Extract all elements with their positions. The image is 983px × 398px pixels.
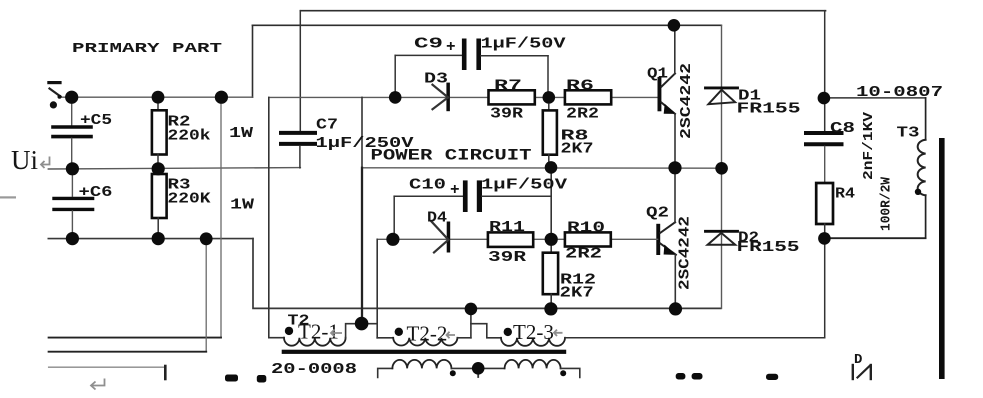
svg-text:R6: R6	[566, 78, 594, 95]
svg-text:Q2: Q2	[646, 205, 669, 222]
svg-text:2nF/1KV: 2nF/1KV	[861, 111, 877, 180]
svg-text:+C6: +C6	[79, 184, 113, 201]
svg-text:39R: 39R	[490, 106, 523, 123]
svg-text:1μF/50V: 1μF/50V	[481, 177, 567, 194]
svg-text:20-0008: 20-0008	[271, 361, 357, 378]
svg-text:2SC4242: 2SC4242	[678, 63, 695, 139]
svg-text:220k: 220k	[168, 128, 211, 145]
svg-text:C8: C8	[830, 120, 855, 137]
svg-text:FR155: FR155	[737, 101, 801, 118]
svg-text:T3: T3	[897, 125, 920, 142]
svg-text:220K: 220K	[168, 191, 211, 208]
svg-text:T2-2: T2-2	[407, 322, 448, 346]
svg-text:D4: D4	[427, 210, 447, 227]
svg-text:C10: C10	[409, 177, 446, 194]
svg-text:1μF/250V: 1μF/250V	[316, 135, 414, 152]
svg-text:D: D	[854, 352, 862, 368]
svg-text:Q1: Q1	[647, 66, 668, 83]
svg-text:+C5: +C5	[80, 112, 112, 129]
svg-text:R11: R11	[489, 219, 525, 236]
svg-text:2SC4242: 2SC4242	[677, 216, 694, 290]
svg-text:+: +	[450, 181, 460, 199]
svg-text:2R2: 2R2	[566, 106, 599, 123]
svg-text:2K7: 2K7	[561, 141, 594, 158]
svg-text:2R2: 2R2	[565, 246, 602, 263]
svg-text:R7: R7	[494, 78, 522, 95]
svg-text:PRIMARY PART: PRIMARY PART	[72, 42, 222, 57]
svg-text:FR155: FR155	[737, 239, 800, 256]
svg-text:R10: R10	[567, 220, 605, 237]
svg-text:D3: D3	[424, 71, 448, 88]
svg-text:10-0807: 10-0807	[856, 84, 943, 101]
svg-text:100R/2W: 100R/2W	[879, 176, 895, 231]
svg-text:2K7: 2K7	[560, 285, 594, 302]
svg-text:R4: R4	[835, 186, 855, 203]
svg-text:1W: 1W	[229, 125, 253, 142]
svg-text:+: +	[446, 38, 456, 56]
svg-text:C7: C7	[316, 117, 338, 134]
svg-text:39R: 39R	[488, 249, 526, 266]
svg-text:Ui: Ui	[11, 145, 38, 175]
svg-text:1W: 1W	[230, 197, 254, 214]
svg-text:C9: C9	[414, 36, 443, 53]
svg-text:1μF/50V: 1μF/50V	[481, 36, 566, 53]
svg-text:T2-3: T2-3	[513, 320, 554, 344]
